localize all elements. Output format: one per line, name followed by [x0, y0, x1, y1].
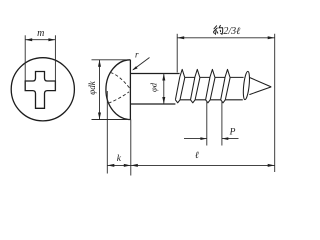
- shank bottom line: [130, 103, 175, 105]
- dimension phi-dk line: [99, 60, 101, 120]
- head side view flat face: [129, 60, 131, 120]
- dimension m line: [25, 39, 55, 41]
- thread core top edge segments: [185, 76, 244, 78]
- thread flights: [175, 69, 271, 102]
- dimension k arrow right: [124, 164, 131, 167]
- dimension P leader line right: [222, 138, 239, 140]
- dimension l arrow right: [268, 164, 275, 167]
- svg-text:m: m: [37, 28, 44, 39]
- dimension P leader line left: [184, 138, 207, 140]
- dimension m arrow left: [25, 38, 32, 41]
- dimension m extension line right: [54, 35, 56, 90]
- dimension P arrow left: [200, 137, 206, 140]
- dimension 2/3-l extension line left: [176, 34, 178, 73]
- recess hidden line upper (dashed): [110, 73, 130, 89]
- thread band 3: [206, 100, 211, 103]
- recess hidden line lower (dashed): [109, 92, 130, 103]
- fillet radius r arrowhead: [132, 66, 138, 70]
- tip cone upper line: [250, 78, 271, 87]
- dimension 2/3-l arrow left: [177, 36, 184, 39]
- shank top line: [130, 73, 179, 75]
- head side view dome arc: [106, 60, 130, 120]
- last thread turn loop: [242, 71, 250, 100]
- dimension P extension line right: [221, 102, 223, 146]
- thread core bottom edge segments: [180, 99, 243, 101]
- svg-text:φd: φd: [149, 82, 159, 92]
- dimension phi-d line: [163, 74, 165, 105]
- dimension P extension line left: [206, 102, 208, 146]
- svg-text:2/3ℓ: 2/3ℓ: [223, 26, 240, 37]
- dimension k arrow left: [107, 164, 114, 167]
- tip cone lower line: [249, 87, 271, 95]
- svg-text:P: P: [229, 128, 236, 138]
- shared right extension line: [274, 34, 276, 172]
- thread band 2: [191, 100, 196, 103]
- dimension P arrow right: [222, 137, 228, 140]
- svg-text:φdk: φdk: [87, 80, 97, 94]
- dimension l line: [131, 164, 275, 166]
- dimension k extension line right: [130, 120, 132, 176]
- thread band 1: [175, 100, 180, 103]
- head top view circle: [11, 58, 74, 121]
- dimension k extension line left: [106, 91, 108, 174]
- dimension phi-d arrow top: [162, 74, 165, 81]
- dimension 2/3-l line: [177, 37, 275, 39]
- dimension phi-dk extension line bottom: [92, 119, 132, 121]
- thread band 4: [221, 100, 226, 103]
- dimension k line: [107, 164, 131, 166]
- dimension m extension line left: [24, 35, 26, 90]
- kanji yaku (approx.) hand-drawn: [214, 25, 223, 34]
- dimension l arrow left: [131, 164, 138, 167]
- dimension m arrow right: [48, 38, 55, 41]
- svg-text:ℓ: ℓ: [195, 151, 199, 161]
- dimension phi-dk extension line top: [92, 59, 131, 61]
- dimension 2/3-l arrow right: [268, 36, 275, 39]
- dimension phi-dk arrow top: [98, 60, 101, 67]
- dimension phi-dk arrow bottom: [98, 113, 101, 120]
- svg-text:r: r: [135, 50, 139, 60]
- dimension phi-d arrow bottom: [162, 97, 165, 104]
- fillet radius r leader: [133, 58, 149, 70]
- phillips recess cross outline: [25, 72, 55, 109]
